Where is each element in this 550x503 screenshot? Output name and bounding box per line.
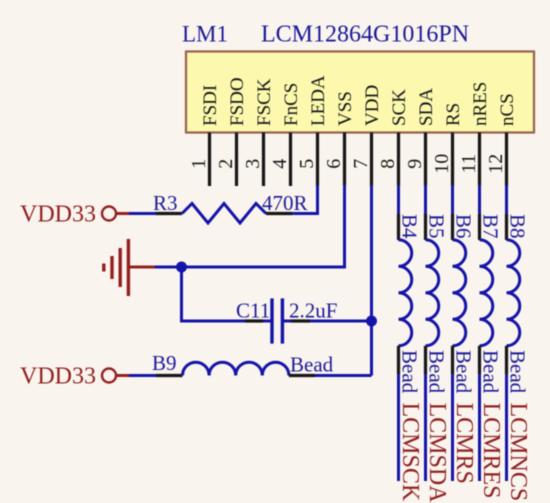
wire pin9 to bead B5 [424,185,427,214]
svg-text:4: 4 [269,159,291,169]
svg-text:1: 1 [188,159,210,169]
svg-text:7: 7 [350,159,372,169]
ground (earth) symbol [104,239,155,296]
pin 5 (LEDA) [296,75,329,186]
svg-text:VDD33: VDD33 [20,201,96,227]
svg-text:LCMRS: LCMRS [451,403,477,484]
svg-text:B9: B9 [152,351,177,375]
svg-text:nRES: nRES [470,82,491,126]
svg-text:C11: C11 [236,299,270,323]
wire VDD33 to B9 [129,374,156,377]
svg-text:VDD: VDD [362,85,383,126]
wire junction down to C11 [182,267,246,321]
ferrite bead B7 (Bead) [479,214,503,394]
svg-text:FSDI: FSDI [200,85,221,126]
wire bead B4 to net label [397,374,400,481]
wire pin11 to bead B7 [478,185,481,214]
pin 9 (SDA) [404,88,437,186]
power port VDD33 (bottom) [20,363,129,389]
svg-text:Bead: Bead [506,350,530,394]
junction dot (VDD net) [366,316,377,327]
power port VDD33 (top) [20,201,129,227]
svg-text:B5: B5 [425,214,449,239]
wire pin10 to bead B6 [451,185,454,214]
svg-text:2.2uF: 2.2uF [289,299,337,323]
wire bead B5 to net label [424,374,427,481]
ferrite bead B4 (Bead) [398,214,422,394]
wire pin12 to bead B8 [505,185,508,214]
svg-text:LM1: LM1 [182,22,228,47]
svg-text:VDD33: VDD33 [20,363,96,389]
IC U:LM1 body [186,52,534,133]
ferrite bead B5 (Bead) [425,214,449,394]
ferrite bead B9 (Bead) [152,351,334,377]
svg-text:LCMNCS: LCMNCS [505,403,531,502]
svg-text:9: 9 [404,159,426,169]
ferrite bead B6 (Bead) [452,214,476,394]
svg-text:RS: RS [443,103,464,126]
svg-text:R3: R3 [153,191,178,215]
pin 11 (nRES) [458,82,491,186]
svg-text:LEDA: LEDA [308,75,329,126]
wire bead B7 to net label [478,374,481,481]
svg-text:B6: B6 [452,214,476,239]
svg-text:Bead: Bead [479,350,503,394]
svg-text:VSS: VSS [335,91,356,126]
svg-text:SCK: SCK [389,89,410,126]
svg-text:LCMSDA: LCMSDA [424,403,450,503]
wire B9 to VDD vertical [315,374,372,377]
svg-text:B8: B8 [506,214,530,239]
svg-text:LCM12864G1016PN: LCM12864G1016PN [261,22,469,48]
svg-text:LCMSCK: LCMSCK [397,403,423,502]
wire bead B6 to net label [451,374,454,481]
svg-text:5: 5 [296,159,318,169]
pin 3 (FSCK) [242,78,275,186]
svg-text:B4: B4 [398,214,422,239]
pin 12 (nCS) [485,93,518,186]
svg-text:10: 10 [431,154,453,174]
svg-text:3: 3 [242,159,264,169]
wire C11 to VDD net [310,320,372,323]
svg-text:SDA: SDA [416,88,437,126]
svg-text:470R: 470R [262,191,308,215]
svg-text:FSCK: FSCK [254,78,275,126]
svg-text:12: 12 [485,154,507,174]
ferrite bead B8 (Bead) [506,214,530,394]
svg-text:2: 2 [215,159,237,169]
junction dot (ground net) [176,262,187,273]
svg-text:B7: B7 [479,214,503,239]
pin 4 (FnCS) [269,83,302,186]
svg-text:6: 6 [323,159,345,169]
wire pin7 VDD vertical [370,185,373,376]
pin 2 (FSDO) [215,77,248,186]
svg-text:Bead: Bead [452,350,476,394]
svg-text:11: 11 [458,154,480,173]
svg-text:8: 8 [377,159,399,169]
svg-text:LCMRES: LCMRES [478,403,504,499]
resistor R3 470R [153,191,308,223]
pin 6 (VSS) [323,91,356,186]
pin 8 (SCK) [377,89,410,186]
svg-text:FSDO: FSDO [227,77,248,126]
svg-text:nCS: nCS [497,93,518,126]
svg-text:Bead: Bead [290,353,334,377]
wire junction to pin6 VSS [182,185,345,267]
capacitor C11 2.2uF [236,298,337,343]
wire bead B8 to net label [505,374,508,481]
pin 10 (RS) [431,103,464,186]
svg-text:Bead: Bead [398,350,422,394]
wire ground to junction [155,266,182,269]
svg-text:FnCS: FnCS [281,83,302,126]
svg-text:Bead: Bead [425,350,449,394]
pin 7 (VDD) [350,85,383,186]
pin 1 (FSDI) [188,85,221,186]
wire pin8 to bead B4 [397,185,400,214]
wire VDD33 to R3 [129,212,156,215]
wire R3 to pin5 LEDA [292,185,318,214]
